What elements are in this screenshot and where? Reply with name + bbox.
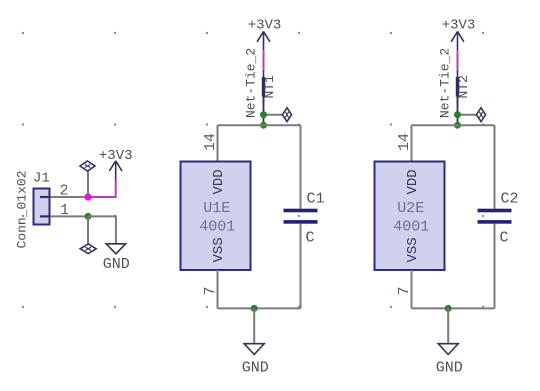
value 4001 of U2E bbox=[393, 218, 429, 235]
label +3V3 (column 1) bbox=[248, 18, 282, 34]
wire VSS rail (column 2) bbox=[412, 307, 495, 309]
svg-text:C: C bbox=[306, 230, 315, 247]
wire VDD rail to C1 bbox=[300, 125, 302, 209]
svg-text:+3V3: +3V3 bbox=[248, 18, 282, 34]
wire stub to net flag (column 1) bbox=[264, 114, 283, 116]
capacitor C2 bbox=[478, 209, 512, 224]
label NT1 bbox=[262, 75, 277, 99]
junction GND (column 2) bbox=[445, 305, 452, 312]
label Net-Tie_2 (NT2) bbox=[438, 48, 453, 118]
svg-text:NT2: NT2 bbox=[456, 75, 471, 98]
pin 2 of J1 bbox=[60, 183, 69, 200]
wire U2E pin 7 down bbox=[411, 270, 413, 308]
wire to U1E pin 14 bbox=[217, 125, 219, 161]
wire to U2E pin 14 bbox=[411, 125, 413, 161]
label Conn_01x02 bbox=[15, 170, 30, 248]
svg-text:14: 14 bbox=[202, 133, 219, 151]
wire junction to flag below pin1 bbox=[87, 216, 89, 243]
net flag diamond above J1 pin2 bbox=[80, 161, 95, 171]
svg-text:U1E: U1E bbox=[203, 200, 230, 217]
svg-text:Net-Tie_2: Net-Tie_2 bbox=[438, 48, 453, 118]
junction lower (column 1) bbox=[260, 122, 267, 129]
svg-text:VDD: VDD bbox=[405, 169, 421, 194]
pin name VSS of U2E bbox=[405, 237, 421, 262]
junction lower (column 2) bbox=[454, 122, 461, 129]
junction upper (column 2) bbox=[454, 111, 461, 118]
svg-text:+3V3: +3V3 bbox=[99, 148, 133, 164]
label GND at J1 bbox=[103, 256, 130, 273]
label +3V3 (column 2) bbox=[442, 18, 476, 34]
wire junction to flag above pin2 bbox=[87, 171, 89, 194]
label C1 bbox=[307, 191, 325, 208]
wire junction to ground (column 1) bbox=[253, 308, 255, 343]
wire J1 pin2 to junction bbox=[51, 196, 89, 198]
label GND (column 2) bbox=[436, 360, 463, 377]
pin number 7 of U2E bbox=[396, 286, 413, 295]
wire C2 to VSS rail bbox=[494, 223, 496, 308]
svg-text:C2: C2 bbox=[501, 191, 519, 208]
ground symbol (column 1) bbox=[244, 344, 264, 355]
wire net-tie to junctions (column 1) bbox=[263, 97, 265, 126]
value C of C1 bbox=[306, 230, 315, 247]
wire VSS rail (column 1) bbox=[218, 307, 301, 309]
junction GND (column 1) bbox=[251, 305, 258, 312]
net flag diamond NT2 output bbox=[476, 108, 485, 122]
net flag diamond NT1 output bbox=[282, 108, 291, 122]
value C of C2 bbox=[500, 230, 509, 247]
reference U2E bbox=[397, 200, 424, 217]
svg-text:VSS: VSS bbox=[405, 237, 421, 262]
net tie NT1 (Net-Tie_2) bbox=[262, 71, 265, 104]
value 4001 of U1E bbox=[199, 218, 235, 235]
junction upper (column 1) bbox=[260, 111, 267, 118]
wire junction to +3V3 riser (magenta net) bbox=[88, 180, 116, 198]
label +3V3 at J1 bbox=[99, 148, 133, 164]
svg-text:Net-Tie_2: Net-Tie_2 bbox=[244, 48, 259, 118]
pin name VDD of U1E bbox=[211, 169, 227, 194]
svg-text:NT1: NT1 bbox=[262, 75, 277, 99]
wire U1E pin 7 down bbox=[217, 270, 219, 308]
svg-text:J1: J1 bbox=[33, 171, 50, 187]
wire VDD rail (column 2) bbox=[412, 124, 495, 126]
wire net-tie to junctions (column 2) bbox=[457, 97, 459, 126]
svg-text:4001: 4001 bbox=[199, 218, 235, 235]
label NT2 bbox=[456, 75, 471, 98]
op-amp body U1E bbox=[181, 162, 251, 271]
power symbol +3V3 (column 1) bbox=[257, 31, 270, 50]
capacitor C1 bbox=[284, 209, 318, 224]
wire J1 pin1 to junction bbox=[51, 215, 89, 217]
wire junction to ground (column 2) bbox=[447, 308, 449, 343]
wire VDD rail to C2 bbox=[494, 125, 496, 209]
svg-text:VDD: VDD bbox=[211, 169, 227, 194]
net flag diamond below J1 pin1 bbox=[80, 244, 96, 254]
label Net-Tie_2 (NT1) bbox=[244, 48, 259, 118]
svg-text:GND: GND bbox=[436, 360, 463, 377]
junction on pin2 net bbox=[84, 193, 91, 200]
ground symbol (column 2) bbox=[438, 344, 458, 355]
svg-text:14: 14 bbox=[396, 133, 413, 151]
power symbol +3V3 (column 2) bbox=[451, 31, 464, 50]
wire C1 to VSS rail bbox=[300, 223, 302, 308]
wire junction to GND drop bbox=[88, 216, 116, 243]
svg-text:U2E: U2E bbox=[397, 200, 424, 217]
svg-text:C: C bbox=[500, 230, 509, 247]
pin number 14 of U2E bbox=[396, 133, 413, 151]
svg-text:7: 7 bbox=[202, 286, 219, 295]
label C2 bbox=[501, 191, 519, 208]
power symbol +3V3 at J1 bbox=[109, 161, 122, 180]
wire power to net-tie NT2 (magenta net) bbox=[457, 50, 459, 70]
op-amp body U2E bbox=[375, 162, 445, 271]
wire power to net-tie NT1 (magenta net) bbox=[263, 50, 265, 70]
svg-text:Conn_01x02: Conn_01x02 bbox=[15, 170, 30, 248]
wire VDD rail (column 1) bbox=[218, 124, 301, 126]
ground symbol at J1 bbox=[106, 244, 125, 254]
pin 1 of J1 bbox=[60, 202, 69, 219]
pin number 7 of U1E bbox=[202, 286, 219, 295]
svg-text:VSS: VSS bbox=[211, 237, 227, 262]
svg-text:7: 7 bbox=[396, 286, 413, 295]
connector J1 (Conn_01x02) bbox=[34, 189, 50, 225]
svg-text:+3V3: +3V3 bbox=[442, 18, 476, 34]
svg-text:GND: GND bbox=[103, 256, 130, 273]
svg-text:GND: GND bbox=[242, 360, 269, 377]
pin name VDD of U2E bbox=[405, 169, 421, 194]
pin number 14 of U1E bbox=[202, 133, 219, 151]
svg-text:C1: C1 bbox=[307, 191, 325, 208]
net tie NT2 (Net-Tie_2) bbox=[456, 71, 459, 104]
label J1 bbox=[33, 171, 50, 187]
junction on pin1 net bbox=[85, 213, 92, 220]
pin name VSS of U1E bbox=[211, 237, 227, 262]
label GND (column 1) bbox=[242, 360, 269, 377]
reference U1E bbox=[203, 200, 230, 217]
wire stub to net flag (column 2) bbox=[458, 114, 477, 116]
svg-text:4001: 4001 bbox=[393, 218, 429, 235]
